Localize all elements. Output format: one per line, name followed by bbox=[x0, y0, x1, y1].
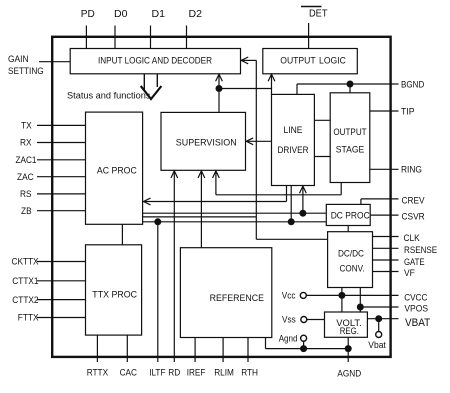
svg-text:TTX PROC: TTX PROC bbox=[92, 289, 137, 300]
wire line driver to output stage (upper) bbox=[314, 119, 330, 121]
svg-text:INPUT LOGIC AND DECODER: INPUT LOGIC AND DECODER bbox=[98, 56, 212, 67]
svg-text:RX: RX bbox=[20, 138, 32, 148]
svg-text:Status and functions: Status and functions bbox=[67, 90, 151, 100]
svg-text:STAGE: STAGE bbox=[336, 145, 364, 156]
svg-text:BGND: BGND bbox=[401, 79, 425, 89]
svg-text:RD: RD bbox=[168, 368, 180, 378]
node Agnd junction dot bbox=[300, 345, 307, 352]
node VBAT junction bbox=[375, 315, 382, 322]
svg-text:VF: VF bbox=[404, 268, 415, 278]
svg-text:VPOS: VPOS bbox=[404, 303, 428, 313]
pin RS bbox=[20, 189, 86, 199]
svg-text:DET: DET bbox=[309, 9, 328, 20]
svg-text:SETTING: SETTING bbox=[8, 65, 44, 76]
svg-text:Vcc: Vcc bbox=[282, 291, 296, 301]
svg-text:OUTPUT: OUTPUT bbox=[333, 127, 366, 138]
wire feedback arrow into input logic right edge bbox=[241, 57, 256, 64]
pin RTH bbox=[241, 338, 258, 378]
svg-text:CONV.: CONV. bbox=[340, 263, 365, 274]
svg-text:GAIN: GAIN bbox=[8, 53, 29, 64]
wire line driver to AC PROC (arrow left) bbox=[144, 186, 287, 205]
pin CKTTX bbox=[12, 257, 86, 267]
pin RLIM bbox=[214, 338, 234, 378]
wire feedback horizontal into DC/DC converter bbox=[256, 238, 327, 240]
node ILTF junction bbox=[154, 218, 161, 225]
pin PD bbox=[81, 9, 95, 49]
wire node A to line-driver vertical bbox=[219, 88, 272, 90]
svg-text:CKTTX: CKTTX bbox=[12, 257, 39, 267]
pin ZAC1 bbox=[16, 155, 86, 165]
pin TIP bbox=[370, 106, 415, 116]
svg-text:CVCC: CVCC bbox=[404, 292, 428, 302]
status double-arrow from input logic (wide hollow arrow) bbox=[141, 74, 162, 99]
pin AGND bbox=[337, 349, 361, 379]
block REFERENCE bbox=[180, 248, 271, 338]
wire GAIN SETTING to input logic bbox=[39, 61, 70, 63]
wire Agnd stub down bbox=[303, 341, 305, 349]
svg-text:CSVR: CSVR bbox=[402, 212, 426, 222]
wire BGND net: line driver top over to border bbox=[297, 84, 390, 94]
wire supervision arrow from output stage bottom bbox=[213, 171, 342, 195]
block TTX PROC bbox=[86, 245, 142, 335]
svg-text:D1: D1 bbox=[152, 9, 166, 20]
pin RX bbox=[20, 138, 86, 148]
pin D2 bbox=[187, 9, 203, 49]
svg-text:RS: RS bbox=[20, 189, 32, 199]
wire junction up to line driver bottom bbox=[290, 186, 292, 222]
wire AC PROC to TTX PROC bbox=[121, 224, 123, 245]
pin CTTX1 bbox=[12, 276, 85, 286]
pin CTTX2 bbox=[12, 295, 85, 305]
wire ILTF down to pin bbox=[157, 222, 159, 362]
pin CLK bbox=[373, 233, 421, 243]
pin IREF bbox=[187, 338, 206, 378]
svg-text:DRIVER: DRIVER bbox=[278, 145, 309, 156]
block AC PROC bbox=[86, 112, 143, 224]
wire Vss to volt reg bbox=[307, 319, 325, 321]
svg-text:GATE: GATE bbox=[404, 257, 425, 267]
wire volt reg bottom to AGND rail bbox=[347, 337, 349, 348]
wire AC PROC to DC PROC (upper) bbox=[143, 212, 327, 214]
pin D0 bbox=[114, 9, 128, 49]
wire DC/DC bottom to volt reg (left) bbox=[341, 288, 343, 313]
svg-text:D2: D2 bbox=[189, 9, 203, 20]
svg-text:ILTF: ILTF bbox=[149, 368, 166, 378]
node BGND junction dot bbox=[347, 81, 354, 88]
svg-text:D0: D0 bbox=[114, 9, 128, 20]
wire DC PROC top to CREV bbox=[361, 199, 399, 205]
pin GAIN SETTING bbox=[8, 53, 44, 76]
wire AGND rail bbox=[266, 348, 349, 350]
wire line-driver top to output logic (arrow up) bbox=[268, 74, 275, 94]
block INPUT LOGIC AND DECODER bbox=[70, 49, 240, 74]
block VOLT. REG. bbox=[325, 312, 368, 337]
block LINE DRIVER bbox=[272, 94, 315, 185]
wire DC/DC bottom to volt reg (right, VPOS net) bbox=[359, 288, 361, 313]
svg-text:ZAC1: ZAC1 bbox=[16, 155, 37, 165]
svg-text:CTTX2: CTTX2 bbox=[12, 295, 38, 305]
block OUTPUT STAGE bbox=[330, 93, 370, 183]
chip outline border bbox=[52, 37, 390, 357]
pin ZAC bbox=[17, 172, 86, 182]
svg-text:PD: PD bbox=[81, 9, 95, 20]
pin ZB bbox=[21, 206, 86, 216]
wire AC PROC to feedback vertical bbox=[143, 216, 257, 218]
wire VBAT dot to Vbat terminal bbox=[378, 319, 380, 332]
svg-text:DC PROC: DC PROC bbox=[331, 211, 370, 222]
svg-text:RTH: RTH bbox=[241, 368, 258, 378]
node Vcc terminal bbox=[282, 291, 307, 301]
pin RTTX bbox=[87, 335, 108, 377]
svg-text:DC/DC: DC/DC bbox=[338, 249, 364, 260]
pin TX bbox=[21, 121, 86, 131]
node A: junction dot under input logic bbox=[216, 85, 223, 92]
block SUPERVISION bbox=[161, 112, 246, 170]
wire AC PROC to DC PROC (lower, ILTF net) bbox=[143, 221, 327, 223]
pin BGND bbox=[390, 79, 425, 89]
pin VPOS bbox=[360, 303, 428, 313]
wire volt reg to VBAT bbox=[367, 318, 398, 320]
block OUTPUT LOGIC bbox=[263, 49, 358, 74]
node AGND junction bbox=[345, 345, 352, 352]
node Vbat terminal circle bbox=[376, 332, 382, 338]
svg-text:IREF: IREF bbox=[187, 368, 206, 378]
svg-text:TIP: TIP bbox=[401, 106, 415, 116]
svg-text:CLK: CLK bbox=[404, 233, 421, 243]
wire reference bottom to AGND rail bbox=[265, 338, 267, 349]
wire supervision arrow from reference top bbox=[198, 171, 205, 248]
svg-text:CAC: CAC bbox=[120, 368, 138, 378]
svg-text:AGND: AGND bbox=[337, 369, 361, 379]
svg-text:Agnd: Agnd bbox=[279, 333, 298, 343]
svg-text:RLIM: RLIM bbox=[214, 368, 234, 378]
svg-text:ZB: ZB bbox=[21, 206, 32, 216]
wire line driver to supervision (arrow left) bbox=[246, 138, 271, 145]
svg-text:RSENSE: RSENSE bbox=[404, 245, 437, 255]
node junction on Vcc wire bbox=[338, 292, 345, 299]
pin CAC bbox=[120, 335, 138, 377]
node Vss terminal bbox=[282, 315, 307, 325]
svg-text:OUTPUT LOGIC: OUTPUT LOGIC bbox=[280, 56, 346, 67]
pin RING bbox=[370, 165, 422, 175]
svg-text:RTTX: RTTX bbox=[87, 368, 108, 378]
svg-text:REG.: REG. bbox=[340, 326, 359, 336]
wire dot to output stage top bbox=[349, 84, 351, 93]
pin GATE bbox=[373, 257, 425, 267]
wire feedback vertical down bbox=[255, 60, 257, 239]
node junction on upper wire bbox=[299, 210, 306, 217]
block DC PROC bbox=[326, 204, 370, 225]
svg-text:VBAT: VBAT bbox=[405, 317, 430, 329]
svg-text:ZAC: ZAC bbox=[17, 172, 34, 182]
svg-text:REFERENCE: REFERENCE bbox=[210, 293, 264, 304]
wire DC PROC to DC/DC CONV bbox=[347, 226, 349, 232]
svg-text:FTTX: FTTX bbox=[18, 313, 39, 323]
pin RSENSE bbox=[373, 245, 438, 255]
wire arrow up into line driver bottom bbox=[300, 186, 307, 213]
svg-text:Vss: Vss bbox=[282, 315, 296, 325]
wire node A down to supervision top bbox=[218, 89, 220, 113]
node junction under line driver bbox=[288, 218, 295, 225]
svg-text:RING: RING bbox=[401, 165, 422, 175]
wire line driver to output stage (lower) bbox=[314, 156, 330, 158]
pin FTTX bbox=[18, 313, 86, 323]
svg-text:TX: TX bbox=[21, 121, 32, 131]
wire arrow up into input logic bottom bbox=[216, 74, 223, 88]
svg-text:Vbat: Vbat bbox=[368, 340, 386, 350]
pin D1 bbox=[151, 9, 166, 49]
svg-text:CTTX1: CTTX1 bbox=[12, 276, 38, 286]
svg-text:SUPERVISION: SUPERVISION bbox=[176, 138, 237, 149]
svg-text:CREV: CREV bbox=[402, 196, 426, 206]
pin VF bbox=[373, 268, 416, 278]
wire supervision arrow from RD line bbox=[171, 171, 178, 362]
node VPOS junction bbox=[357, 304, 364, 311]
pin CSVR bbox=[370, 212, 425, 222]
wire Vcc to CVCC bbox=[306, 294, 398, 296]
svg-text:AC PROC: AC PROC bbox=[97, 166, 137, 177]
svg-text:LINE: LINE bbox=[284, 125, 303, 136]
node Agnd terminal bbox=[279, 333, 307, 343]
block DC/DC CONV. bbox=[328, 232, 373, 288]
pin DET (active low, overline) bbox=[301, 7, 328, 49]
